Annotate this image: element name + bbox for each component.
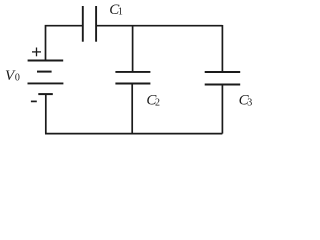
wire top-left from battery + up and right to C1 left plate bbox=[46, 26, 83, 61]
capacitor C2 bottom plate bbox=[115, 83, 150, 85]
minus sign bbox=[31, 100, 37, 102]
wire battery bottom stem bbox=[45, 94, 47, 134]
capacitor C3 bottom plate bbox=[205, 84, 241, 86]
wire C3 bottom stem bbox=[221, 85, 223, 134]
capacitor C1 left plate bbox=[82, 6, 84, 42]
capacitor C3 top plate bbox=[205, 71, 241, 73]
battery V0 long plate 2 bbox=[28, 82, 64, 84]
battery V0 long plate 1 bbox=[28, 60, 64, 62]
svg-text:1: 1 bbox=[118, 7, 123, 18]
battery V0 short plate 2 bbox=[38, 93, 53, 95]
wire bottom rail bbox=[45, 133, 222, 135]
capacitor C2 top plate bbox=[115, 71, 150, 73]
wire top rail from C1 right plate to top-right corner bbox=[96, 25, 222, 27]
svg-text:2: 2 bbox=[155, 97, 160, 108]
svg-text:0: 0 bbox=[15, 73, 20, 84]
plus sign bbox=[32, 48, 41, 57]
wire C2 top stem bbox=[132, 26, 134, 72]
capacitor C1 right plate bbox=[95, 6, 97, 42]
svg-text:3: 3 bbox=[247, 97, 252, 108]
battery V0 short plate 1 bbox=[37, 71, 52, 73]
wire C3 right branch down from top-right corner bbox=[221, 25, 223, 72]
wire C2 bottom stem bbox=[131, 84, 133, 134]
